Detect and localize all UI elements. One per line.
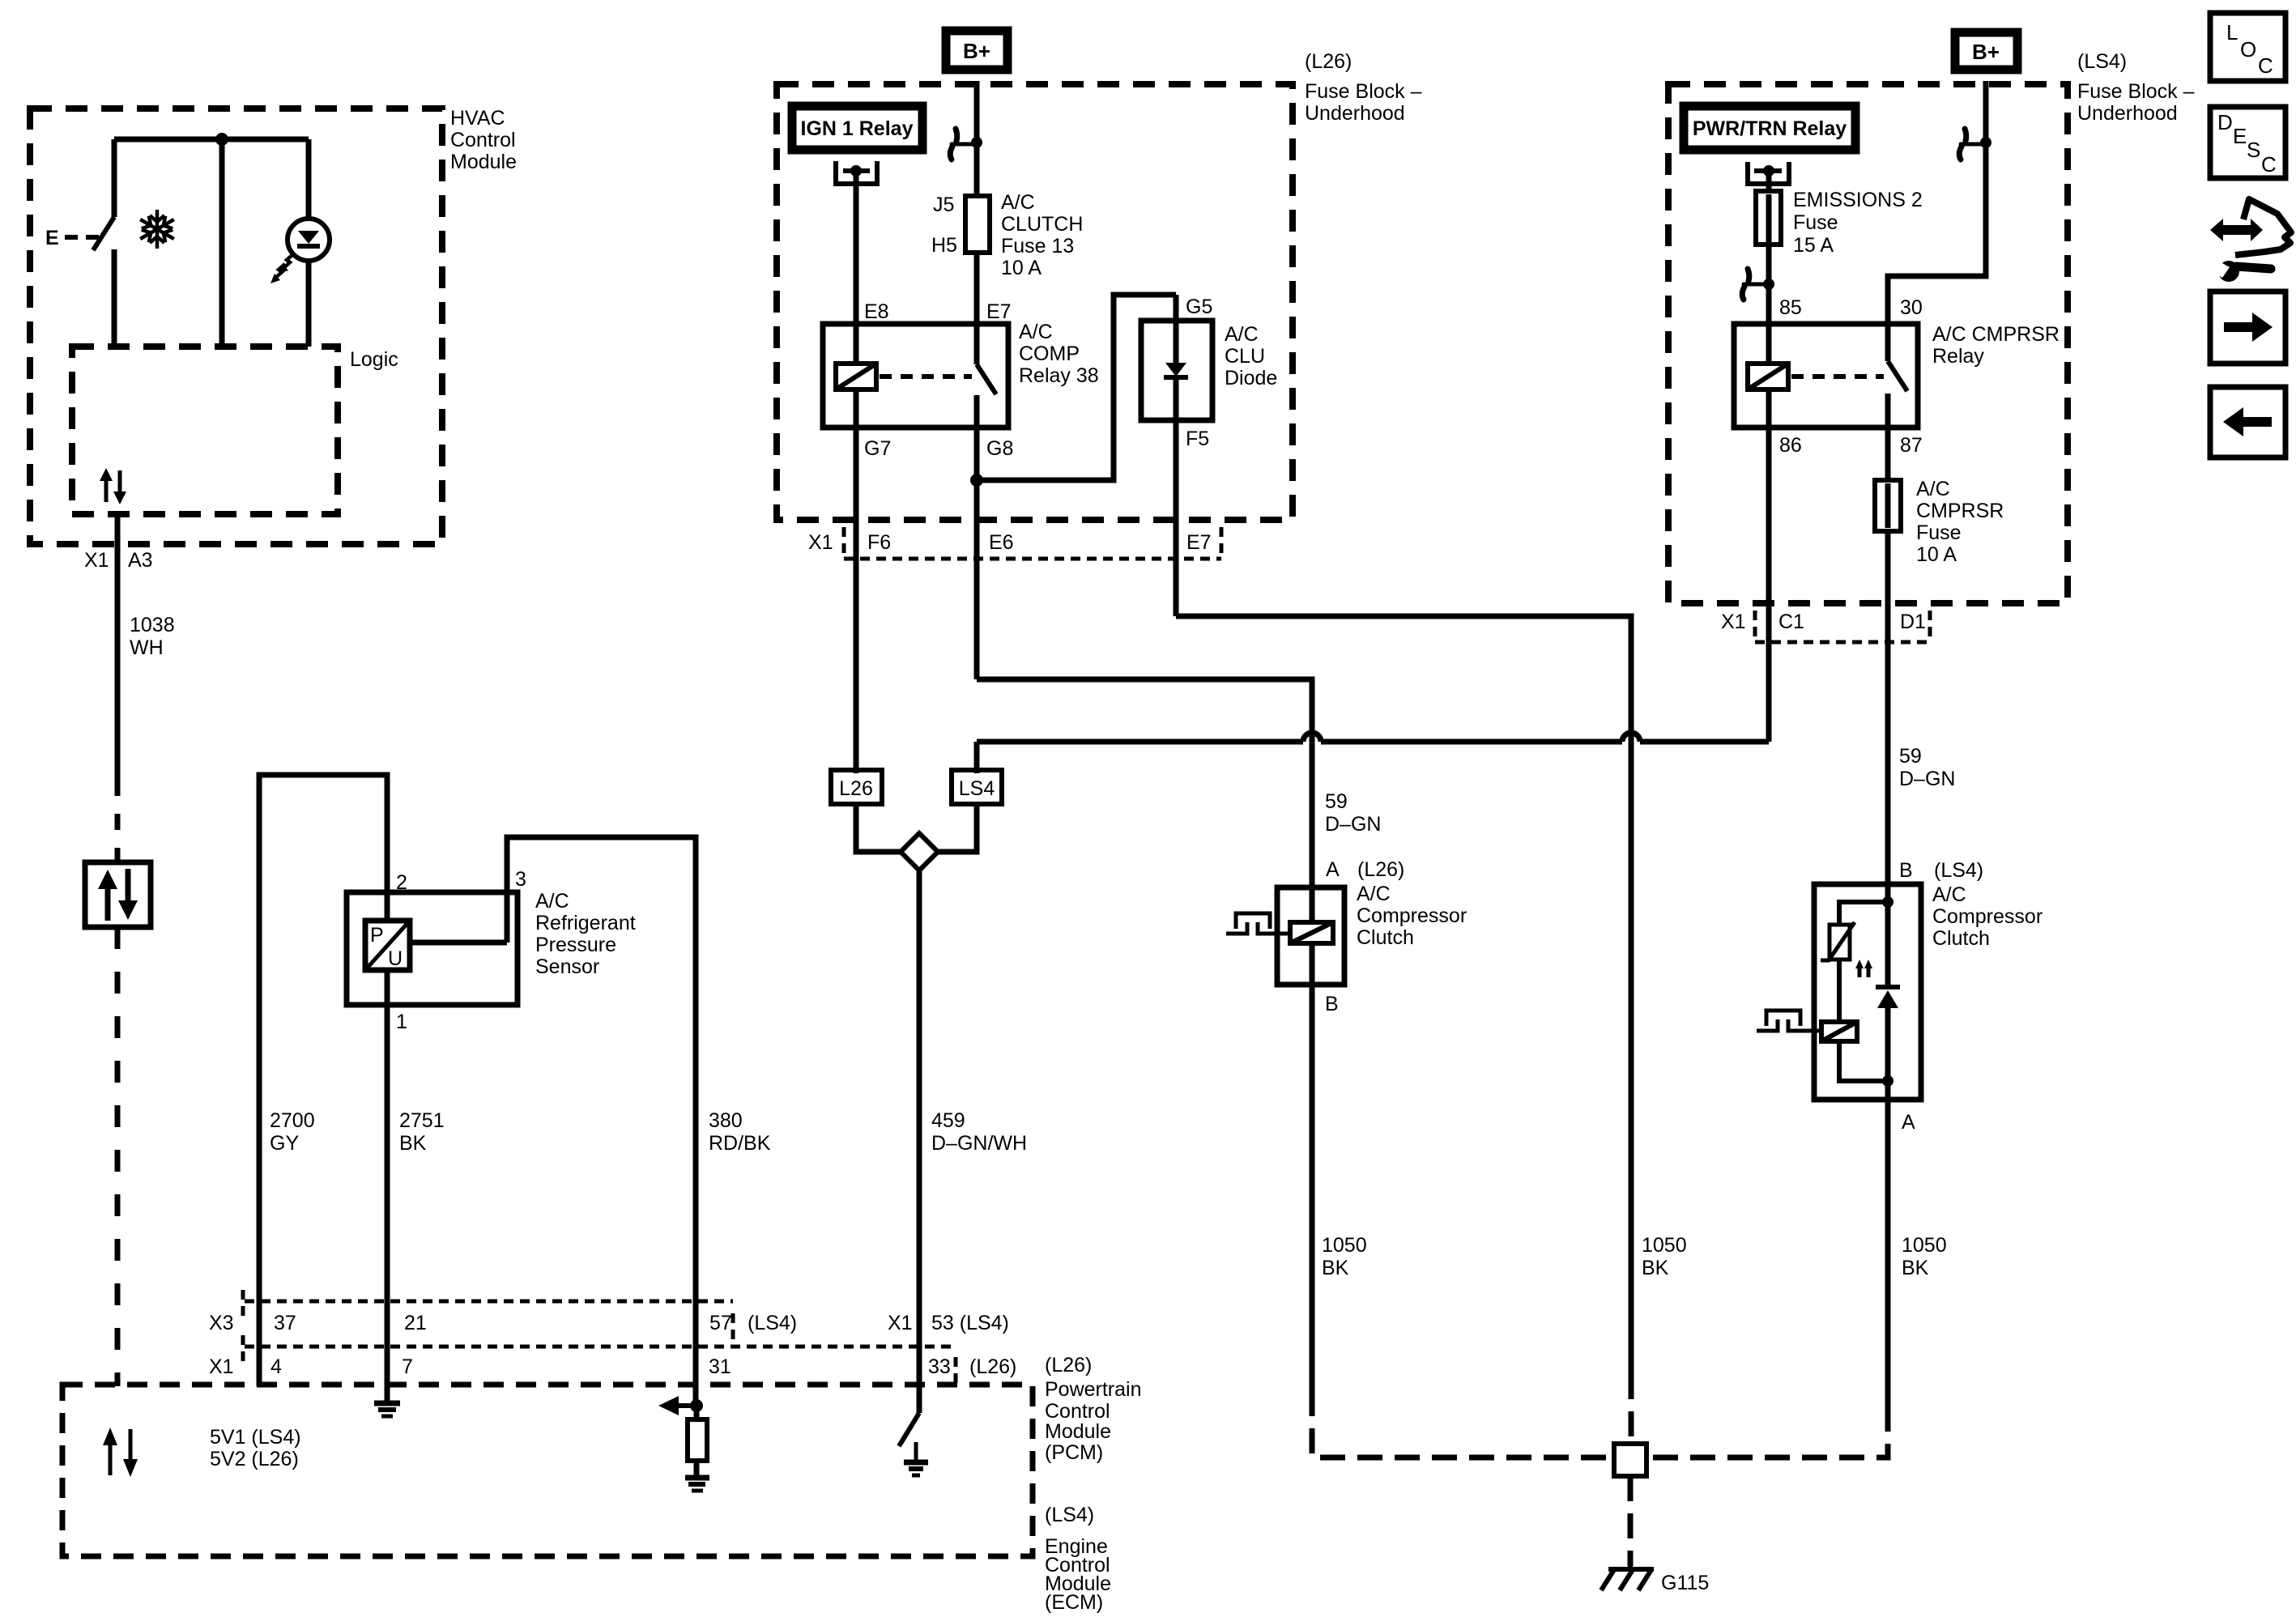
svg-text:A/C: A/C <box>535 890 569 913</box>
svg-text:CLUTCH: CLUTCH <box>1001 213 1083 236</box>
svg-text:1050: 1050 <box>1642 1234 1687 1257</box>
svg-text:C: C <box>2258 53 2273 78</box>
svg-text:U: U <box>388 947 403 970</box>
A/C Refrigerant Pressure Sensor box <box>347 892 518 1005</box>
PWR/TRN Relay title box <box>1684 106 1855 150</box>
HVAC Control Module dashed box <box>30 109 442 544</box>
svg-text:53 (LS4): 53 (LS4) <box>931 1312 1009 1334</box>
resistor pin 31 <box>688 1419 707 1461</box>
svg-text:C1: C1 <box>1778 611 1804 633</box>
svg-text:Fuse 13: Fuse 13 <box>1001 235 1074 257</box>
junction dot G8 <box>970 474 983 487</box>
wire right branch upper <box>306 139 312 219</box>
junction dot 85 wire <box>1763 279 1774 290</box>
ground symbol pin 7 <box>374 1403 400 1416</box>
svg-text:A/C: A/C <box>1916 478 1950 500</box>
wire LS4 tag to splice <box>938 804 977 852</box>
svg-text:Powertrain: Powertrain <box>1045 1378 1142 1401</box>
svg-text:7: 7 <box>402 1355 413 1378</box>
svg-text:1050: 1050 <box>1322 1234 1367 1257</box>
A/C COMP Relay 38 label <box>1019 321 1099 387</box>
diode wire lower <box>1174 377 1179 420</box>
Fuse Block (LS4) label <box>2077 50 2195 125</box>
wire 2700 GY label <box>270 1109 315 1155</box>
svg-text:J5: J5 <box>933 194 954 216</box>
wire top horizontal in HVAC <box>114 137 309 143</box>
svg-text:Pressure: Pressure <box>535 934 616 956</box>
svg-text:1050: 1050 <box>1902 1234 1947 1257</box>
Fuse Block Underhood (LS4) dashed box <box>1668 84 2068 603</box>
wire 1050 BK (L26 clutch) <box>1310 985 1315 1391</box>
svg-text:G115: G115 <box>1661 1572 1709 1594</box>
svg-text:C: C <box>2261 152 2277 177</box>
svg-text:Module: Module <box>1045 1420 1111 1443</box>
A/C Compressor Clutch (L26) label <box>1357 883 1467 949</box>
wire 2751 BK down <box>385 1005 390 1401</box>
svg-text:P: P <box>370 924 384 947</box>
clutch L26 coil <box>1290 922 1333 943</box>
wire LS4 net drop to LS4 tag <box>974 742 980 773</box>
svg-text:COMP: COMP <box>1019 343 1080 365</box>
relay 38 dashed actuator link <box>880 374 972 379</box>
ground symbol pin 33 <box>914 1442 918 1462</box>
svg-text:PWR/TRN Relay: PWR/TRN Relay <box>1693 117 1847 140</box>
A/C Compressor Clutch (L26) box <box>1277 887 1344 985</box>
svg-text:A3: A3 <box>128 549 153 572</box>
svg-text:(LS4): (LS4) <box>748 1312 797 1334</box>
splice ground box <box>1614 1444 1646 1476</box>
svg-text:E: E <box>2233 124 2247 148</box>
inline connector hook (L26 B+) <box>950 129 977 160</box>
svg-text:87: 87 <box>1900 434 1923 457</box>
svg-text:B+: B+ <box>1972 40 2000 64</box>
svg-text:(PCM): (PCM) <box>1045 1441 1103 1464</box>
wire 59 D-GN label (LS4) <box>1899 745 1955 790</box>
svg-text:X1: X1 <box>209 1355 234 1378</box>
svg-text:GY: GY <box>270 1132 299 1155</box>
svg-text:37: 37 <box>274 1312 296 1334</box>
svg-text:D–GN/WH: D–GN/WH <box>931 1132 1027 1155</box>
ground net dashed (L26 clutch) <box>1312 1391 1614 1457</box>
svg-text:LS4: LS4 <box>959 777 995 800</box>
clutch LS4 main wire <box>1885 884 1891 1100</box>
A/C COMP Relay 38 box <box>823 324 1008 428</box>
IGN 1 relay output cup symbol <box>836 161 877 184</box>
wire 2700 GY riser and top link <box>259 775 387 1386</box>
A/C CMPRSR Relay box <box>1734 324 1918 428</box>
wire fuse to 85 <box>1766 245 1772 324</box>
svg-text:G5: G5 <box>1186 296 1212 318</box>
wire 59 D-GN label (L26) <box>1325 790 1381 836</box>
logic up/down arrows <box>100 468 126 504</box>
clutch LS4 diode bar <box>1876 985 1900 989</box>
wire 380 RD/BK label <box>709 1109 771 1155</box>
svg-text:E6: E6 <box>989 531 1014 554</box>
svg-text:BK: BK <box>1642 1257 1669 1279</box>
A/C CLU Diode label <box>1225 323 1277 389</box>
wire 459 down from splice <box>917 870 922 1413</box>
svg-text:30: 30 <box>1900 296 1923 319</box>
clutch LS4 left branch upper <box>1839 902 1888 923</box>
clutch L26 wire through <box>1310 887 1315 985</box>
G115 chassis ground symbol <box>1601 1563 1654 1590</box>
LED indicator circle <box>288 219 330 261</box>
wire pin3 riser <box>507 837 696 1406</box>
wire 459 D-GN/WH label <box>931 1109 1027 1155</box>
svg-text:(L26): (L26) <box>1357 858 1404 881</box>
node junction dot HVAC top <box>215 133 228 146</box>
svg-text:D: D <box>2217 110 2233 134</box>
svg-text:D–GN: D–GN <box>1899 768 1955 790</box>
wire G7 down to F6 <box>854 428 859 773</box>
svg-text:X3: X3 <box>209 1312 234 1334</box>
svg-text:Fuse Block –: Fuse Block – <box>2077 80 2195 103</box>
IGN 1 Relay title box <box>792 106 922 150</box>
sensor wire pin2 inside <box>385 892 390 921</box>
svg-text:G8: G8 <box>986 437 1013 460</box>
svg-text:2751: 2751 <box>399 1109 445 1132</box>
svg-text:BK: BK <box>1322 1257 1349 1279</box>
LOC icon box <box>2210 13 2285 81</box>
svg-text:(L26): (L26) <box>1045 1354 1092 1377</box>
svg-text:(ECM): (ECM) <box>1045 1591 1103 1614</box>
svg-text:H5: H5 <box>931 234 957 257</box>
svg-text:CMPRSR: CMPRSR <box>1916 500 2004 522</box>
A/C CMPRSR Fuse <box>1875 480 1901 531</box>
LED light arrows <box>274 254 293 279</box>
ground net dashed (middle) <box>1629 1374 1634 1444</box>
wire IGN1 feed to E8 <box>854 173 859 324</box>
PWM control symbol (LS4 clutch) <box>1757 1011 1821 1031</box>
HVAC Control Module label <box>450 107 517 173</box>
Logic dashed box <box>72 347 338 514</box>
svg-text:Underhood: Underhood <box>2077 102 2178 125</box>
svg-text:A/C: A/C <box>1001 191 1035 214</box>
wire B+ drop (LS4) <box>1888 81 1986 324</box>
wire 2751 BK label <box>399 1109 445 1155</box>
svg-text:E: E <box>45 227 59 249</box>
Fuse Block Underhood (L26) dashed box <box>777 84 1293 520</box>
diode triangle <box>1165 363 1186 377</box>
ground symbol pin 31 <box>685 1478 709 1491</box>
junction dot pin 31 <box>690 1399 703 1412</box>
svg-text:B: B <box>1325 993 1339 1015</box>
thermal arrows <box>1855 960 1872 977</box>
svg-text:A/C: A/C <box>1225 323 1259 346</box>
svg-text:Control: Control <box>450 129 516 151</box>
wire fuse to E7 <box>974 253 980 324</box>
wire G8 down to E6 <box>974 428 980 679</box>
junction dot top (LS4 clutch) <box>1882 896 1893 908</box>
wire 86 down through C1 <box>1766 428 1772 742</box>
svg-text:Underhood: Underhood <box>1305 102 1405 125</box>
svg-text:Relay: Relay <box>1932 345 1984 368</box>
diode wire upper <box>1174 321 1179 363</box>
svg-text:A: A <box>1326 858 1340 881</box>
serial data arrows box <box>85 862 151 927</box>
wire left branch lower <box>112 249 117 350</box>
wire F5 down to E7 row <box>1174 420 1179 616</box>
wire 87 down to fuse <box>1885 428 1891 480</box>
svg-text:X1: X1 <box>1721 611 1746 633</box>
ground net dashed to G115 <box>1628 1476 1634 1566</box>
junction dot B+ drop <box>971 137 982 148</box>
LED diode triangle <box>298 231 319 244</box>
back arrow icon box <box>2210 387 2285 457</box>
clutch LS4 coil <box>1821 1022 1857 1041</box>
EMISSIONS 2 Fuse <box>1756 191 1781 245</box>
svg-text:L: L <box>2226 20 2238 45</box>
A/C CMPRSR Relay label <box>1932 323 2060 368</box>
svg-text:(L26): (L26) <box>1305 50 1352 73</box>
double arrow <box>2210 219 2263 241</box>
vehicle location icon <box>2210 199 2291 255</box>
svg-text:E8: E8 <box>864 300 889 323</box>
svg-text:(LS4): (LS4) <box>1045 1504 1094 1526</box>
svg-text:Control: Control <box>1045 1400 1110 1423</box>
wire 1038 dashed to data box <box>115 780 121 862</box>
relay 38 coil wire through <box>854 324 859 428</box>
arrow left at pin 31 <box>675 1403 696 1408</box>
svg-text:380: 380 <box>709 1109 743 1132</box>
CMPRSR relay coil <box>1748 364 1788 389</box>
svg-text:Fuse Block –: Fuse Block – <box>1305 80 1422 103</box>
svg-text:HVAC: HVAC <box>450 107 505 130</box>
sensor pin3 link inside <box>410 940 507 946</box>
svg-text:CLU: CLU <box>1225 345 1265 368</box>
DESC icon box <box>2210 107 2285 178</box>
switch at pin 33 <box>899 1413 919 1446</box>
relay 38 coil <box>836 364 876 389</box>
snowflake icon <box>137 210 178 249</box>
wire L26 tag to splice <box>856 804 901 852</box>
L26 tag box <box>831 770 882 804</box>
svg-text:Sensor: Sensor <box>535 955 599 978</box>
wire 1038 dashed lower <box>115 927 121 1386</box>
sensor wire pin1 inside <box>385 970 390 1005</box>
A/C Compressor Clutch (LS4) label <box>1932 883 2043 950</box>
svg-text:3: 3 <box>515 868 526 891</box>
A/C CLU Diode box <box>1141 321 1212 420</box>
svg-text:5V2 (L26): 5V2 (L26) <box>210 1448 299 1470</box>
svg-text:A/C: A/C <box>1357 883 1391 905</box>
svg-text:X1: X1 <box>84 549 109 572</box>
wire LS4 net horizontal with hops <box>977 739 1303 745</box>
thermal fuse rect <box>1830 925 1850 960</box>
svg-text:33: 33 <box>928 1355 951 1378</box>
svg-text:RD/BK: RD/BK <box>709 1132 771 1155</box>
P/U transducer symbol <box>365 921 410 970</box>
svg-text:86: 86 <box>1779 434 1802 457</box>
PWR/TRN relay output cup symbol <box>1748 162 1789 184</box>
svg-text:EMISSIONS 2: EMISSIONS 2 <box>1793 189 1923 211</box>
coil wire through <box>1766 324 1772 428</box>
svg-text:(L26): (L26) <box>969 1355 1016 1378</box>
splice diamond <box>901 833 938 870</box>
wire middle branch to Logic <box>219 139 225 347</box>
svg-text:10 A: 10 A <box>1916 543 1957 566</box>
svg-text:Refrigerant: Refrigerant <box>535 912 636 934</box>
svg-text:15 A: 15 A <box>1793 234 1834 257</box>
clutch LS4 diode triangle <box>1877 990 1898 1008</box>
svg-text:Clutch: Clutch <box>1932 927 1990 950</box>
svg-text:Fuse: Fuse <box>1916 521 1962 544</box>
wire left branch upper <box>112 139 117 217</box>
svg-text:Diode: Diode <box>1225 367 1277 389</box>
diode bar <box>1164 375 1188 380</box>
svg-text:(LS4): (LS4) <box>2077 50 2127 73</box>
svg-text:Clutch: Clutch <box>1357 926 1414 949</box>
junction dot LS4 B+ drop <box>1980 137 1991 148</box>
wire diode net to ground trunk <box>1176 616 1631 1374</box>
svg-text:85: 85 <box>1779 296 1802 319</box>
svg-text:X1: X1 <box>888 1312 913 1334</box>
svg-text:B: B <box>1899 859 1913 882</box>
PWM control symbol (L26 clutch) <box>1226 913 1290 934</box>
svg-text:Relay 38: Relay 38 <box>1019 364 1099 387</box>
wire A3 out of logic <box>115 514 121 571</box>
svg-text:A/C CMPRSR: A/C CMPRSR <box>1932 323 2060 346</box>
wire 1038 WH label <box>130 614 175 659</box>
svg-text:1: 1 <box>396 1011 407 1033</box>
svg-text:E7: E7 <box>1186 531 1212 554</box>
wire 1050 BK label (middle) <box>1642 1234 1687 1279</box>
clutch LS4 branch to coil <box>1837 960 1842 1022</box>
svg-text:Logic: Logic <box>350 348 398 371</box>
svg-text:D–GN: D–GN <box>1325 813 1381 836</box>
svg-text:L26: L26 <box>839 777 873 800</box>
svg-text:21: 21 <box>404 1312 427 1334</box>
svg-text:31: 31 <box>709 1355 731 1378</box>
wire fuse to D1 <box>1885 531 1891 884</box>
svg-text:59: 59 <box>1325 790 1348 813</box>
svg-text:B+: B+ <box>963 39 990 63</box>
wire dot to diode branch <box>977 295 1176 480</box>
svg-text:O: O <box>2240 37 2256 62</box>
wire PWR/TRN to fuse <box>1766 173 1772 191</box>
svg-text:(LS4): (LS4) <box>1934 859 1983 882</box>
clutch LS4 branch lower <box>1839 1041 1888 1081</box>
relay 38 switch <box>974 324 980 364</box>
svg-text:A/C: A/C <box>1019 321 1053 343</box>
wire G5 into diode box <box>1174 295 1179 364</box>
PCM ECM label block <box>1045 1354 1142 1614</box>
svg-text:F6: F6 <box>867 531 891 554</box>
A/C Refrigerant Pressure Sensor label <box>535 890 636 978</box>
svg-text:WH: WH <box>130 636 164 659</box>
svg-text:4: 4 <box>270 1355 282 1378</box>
wire E dashed link <box>65 235 99 240</box>
svg-text:F5: F5 <box>1186 428 1209 450</box>
svg-text:1038: 1038 <box>130 614 175 636</box>
ground net dashed (LS4 clutch) <box>1646 1406 1888 1457</box>
svg-text:E7: E7 <box>986 300 1012 323</box>
svg-text:10 A: 10 A <box>1001 257 1042 279</box>
wire E6 net to clutch A (L26) <box>977 679 1312 887</box>
A/C CLUTCH Fuse 13 <box>965 196 990 253</box>
svg-text:2700: 2700 <box>270 1109 315 1132</box>
wire 1038 down <box>115 571 121 780</box>
svg-text:G7: G7 <box>864 437 891 460</box>
CMPRSR relay dashed actuator link <box>1791 374 1884 379</box>
LED diode bar <box>297 244 320 249</box>
wire right branch lower <box>306 261 312 347</box>
svg-text:BK: BK <box>399 1132 427 1155</box>
svg-text:A/C: A/C <box>1932 883 1966 906</box>
5V reference labels <box>210 1426 301 1470</box>
B+ terminal (LS4) <box>1955 32 2017 70</box>
svg-text:59: 59 <box>1899 745 1922 768</box>
LS4 tag box <box>952 770 1002 804</box>
svg-text:Compressor: Compressor <box>1357 904 1467 927</box>
wire 1050 BK (LS4 clutch) <box>1885 1100 1891 1406</box>
svg-text:BK: BK <box>1902 1257 1929 1279</box>
svg-text:Module: Module <box>450 151 517 173</box>
B+ terminal (L26) <box>946 31 1007 70</box>
junction dot bottom (LS4 clutch) <box>1882 1075 1893 1087</box>
wrench icon <box>2211 259 2271 282</box>
CMPRSR relay switch <box>1885 324 1891 361</box>
inline connector hook (85 wire) <box>1742 269 1769 300</box>
svg-text:A: A <box>1902 1111 1915 1134</box>
switch S (A/C request) blade <box>93 217 114 250</box>
svg-text:D1: D1 <box>1900 611 1926 633</box>
serial data arrows in PCM <box>103 1428 138 1477</box>
svg-text:S: S <box>2247 138 2260 162</box>
svg-text:IGN 1 Relay: IGN 1 Relay <box>801 117 914 140</box>
wire B+ drop (L26) <box>974 81 980 196</box>
svg-text:Compressor: Compressor <box>1932 905 2043 928</box>
PCM/ECM dashed box <box>62 1385 1033 1556</box>
svg-text:5V1 (LS4): 5V1 (LS4) <box>210 1426 301 1449</box>
forward arrow icon box <box>2210 291 2285 364</box>
A/C Compressor Clutch (LS4) box <box>1814 884 1921 1100</box>
Fuse Block (L26) label <box>1305 50 1422 125</box>
inline connector hook (LS4 B+) <box>1959 129 1986 160</box>
svg-text:Fuse: Fuse <box>1793 211 1838 234</box>
svg-text:57: 57 <box>709 1312 732 1334</box>
svg-text:X1: X1 <box>808 531 833 554</box>
svg-text:459: 459 <box>931 1109 965 1132</box>
